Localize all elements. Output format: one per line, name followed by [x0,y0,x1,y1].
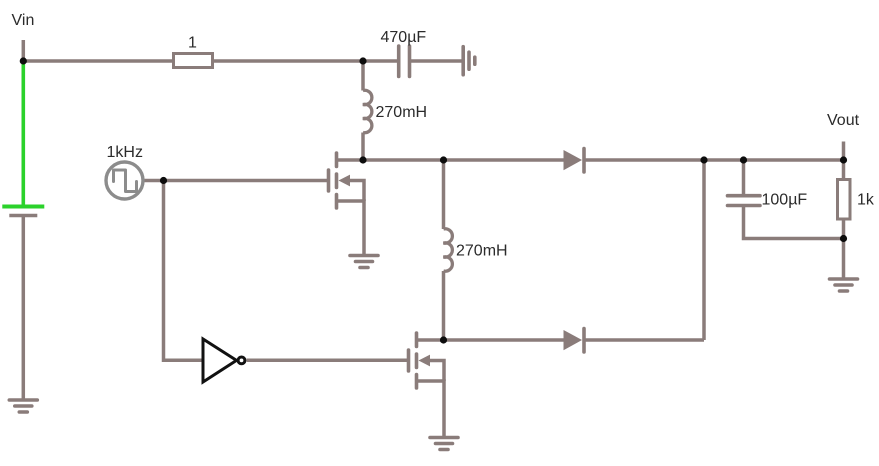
svg-text:270mH: 270mH [456,243,508,260]
svg-text:1k: 1k [857,192,875,209]
svg-text:270mH: 270mH [376,104,428,121]
svg-text:Vout: Vout [827,112,860,129]
svg-text:1: 1 [188,34,197,51]
svg-text:100µF: 100µF [762,192,808,209]
svg-text:Vin: Vin [12,12,35,29]
svg-text:1kHz: 1kHz [107,144,143,161]
svg-text:470µF: 470µF [381,29,427,46]
